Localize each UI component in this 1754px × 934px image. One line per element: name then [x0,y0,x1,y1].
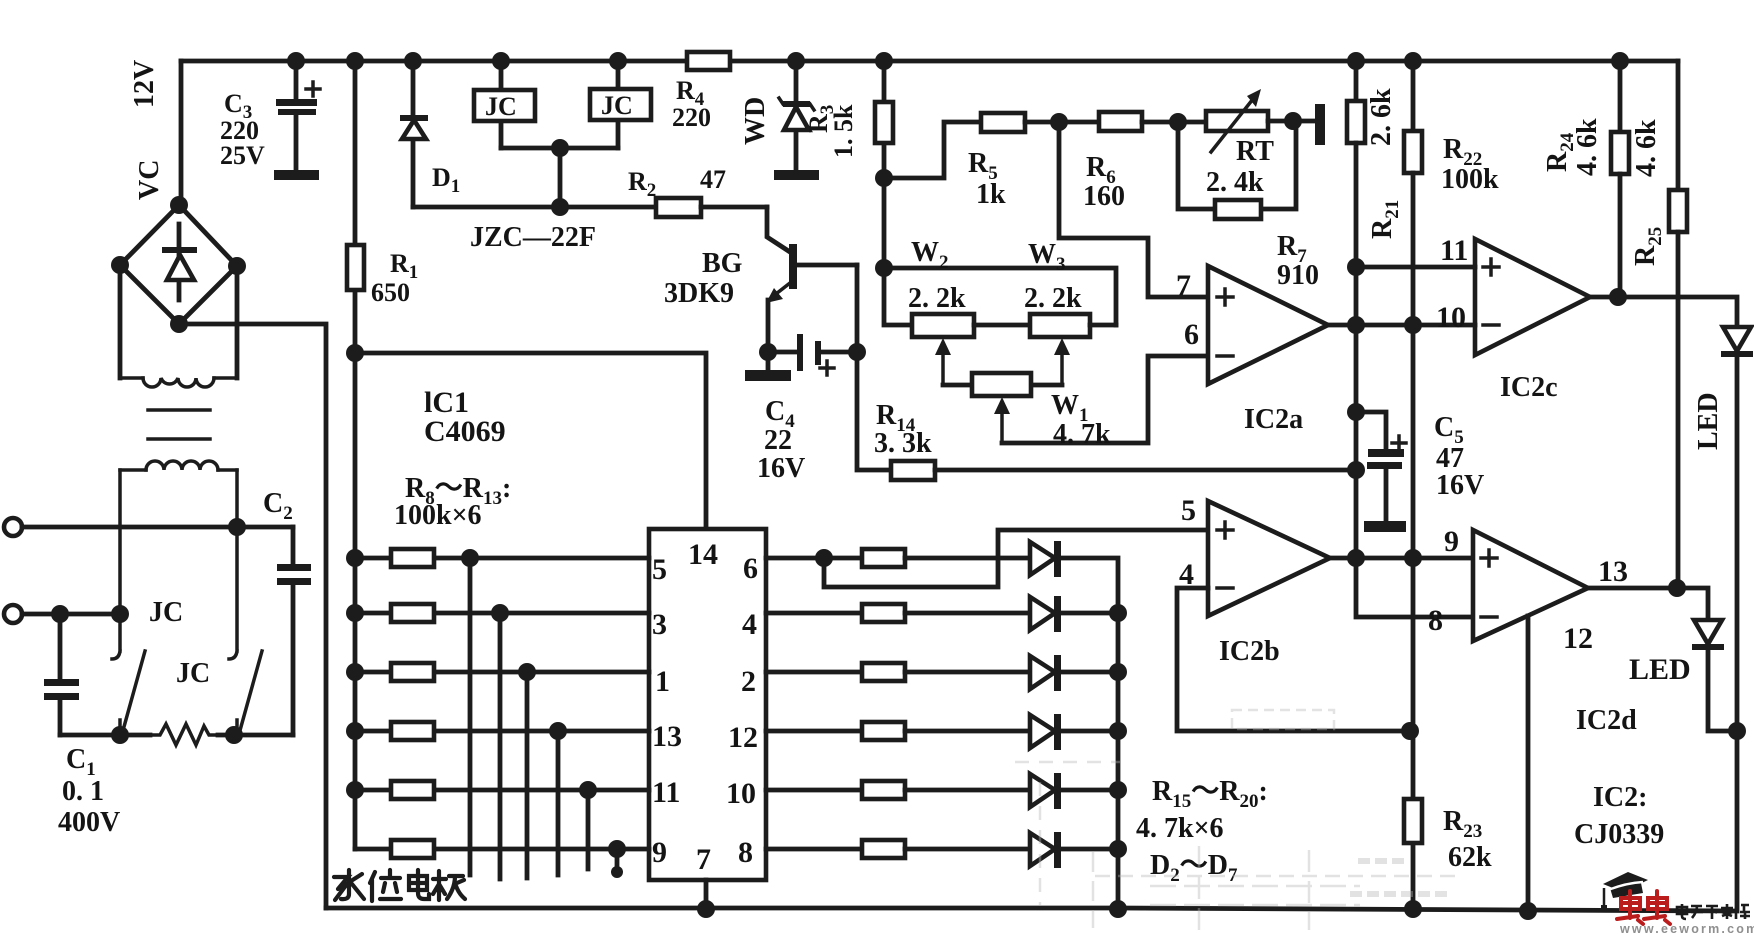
resistor R23 [1404,558,1422,918]
zener WD [779,61,814,172]
pot W2 [912,314,1030,385]
wire W2W3 top loop [875,259,1116,325]
terminal input N [4,605,22,623]
svg-text:2: 2 [741,665,756,698]
label R6 160 [1083,152,1125,212]
wire +12V top rail [181,59,1678,64]
diode D5 [1030,714,1118,750]
capacitor C2 [277,527,311,735]
capacitor C5 [1356,412,1406,523]
label RT 2.4k [1206,136,1274,198]
svg-text:BG: BG [702,248,743,279]
thermistor RT [1206,89,1317,152]
op-amp IC2d [1473,530,1588,641]
svg-text:16V: 16V [1436,470,1484,501]
svg-text:LED: LED [1629,653,1691,686]
svg-text:C4069: C4069 [424,415,506,448]
resistor R2 [656,198,767,217]
svg-text:6: 6 [1184,318,1199,351]
svg-text:7: 7 [696,843,711,876]
scan noise bleed-through [1015,710,1460,930]
svg-text:100k×6: 100k×6 [394,500,482,531]
svg-text:9: 9 [1444,525,1459,558]
label D1 [432,163,460,197]
resistor R6 [1099,112,1206,131]
svg-text:9: 9 [652,836,667,869]
resistor R5 [981,113,1099,132]
diode D6 [1030,773,1118,809]
svg-text:0. 1: 0. 1 [62,776,104,807]
svg-text:14: 14 [688,538,718,571]
ground bar WD [774,170,819,180]
wire JC coils common [501,139,618,207]
label R15-R20 4.7kx6 [1136,776,1268,844]
wire IC2a out to IC2c pin10 [1328,323,1475,328]
resistor R18 [766,722,1030,740]
label W3 2.2k [1024,239,1082,314]
junction dots on top rail [287,52,1629,70]
junction emitter C4 [759,343,777,361]
label water level electrodes (shui wei dian ji) [334,870,465,901]
resistor R15 [862,549,1030,567]
label C3 220 25V [220,89,265,170]
svg-text:IC2b: IC2b [1219,636,1280,667]
op-amp IC2b [1208,501,1330,616]
diode D3 [1030,596,1118,632]
svg-text:1: 1 [655,665,670,698]
svg-text:4. 7k×6: 4. 7k×6 [1136,813,1224,844]
label IC2c pins 11 10 [1436,234,1468,334]
transistor BG [766,207,857,352]
label IC2b pins 5 4 [1179,494,1196,591]
resistor R21 [1347,61,1473,617]
resistor R20 [766,840,1030,858]
wire R3 to R5 [884,122,981,178]
svg-text:IC2c: IC2c [1500,372,1558,403]
heater element zigzag [152,724,216,745]
watermark chongchong red glyphs [1617,891,1670,924]
label WD [740,97,771,145]
label R8-R13 100kx6 [394,473,511,531]
ground bar C3 [274,170,319,180]
wire bottom bus [326,731,1737,911]
svg-text:2. 4k: 2. 4k [1206,167,1264,198]
resistor R9 [346,604,649,622]
svg-text:12: 12 [728,721,758,754]
wire W1 wiper to IC2a pin6 [1002,356,1208,443]
wire VC riser [179,61,184,205]
LED2 [1692,620,1746,740]
label R24 4.6k [1542,118,1603,176]
resistor R3 [875,61,893,268]
wire input L to C2 [22,518,293,536]
svg-text:IC2a: IC2a [1244,404,1303,435]
wire D1 to R2 node [413,198,656,216]
wire IC2b pin4 feedback [1177,588,1419,740]
label C1 0.1 400V [58,744,120,838]
wire IC2c pin11 [1356,265,1475,270]
label C5 47 16V [1434,412,1484,501]
svg-text:62k: 62k [1448,842,1492,873]
svg-text:1k: 1k [976,179,1006,210]
svg-text:2. 6k: 2. 6k [1366,88,1397,146]
capacitor C4 [768,334,857,375]
resistor R4 [687,52,730,70]
svg-text:650: 650 [371,278,410,307]
svg-text:10: 10 [726,777,756,810]
wire IC2c output to LED1 [1590,288,1737,327]
relay contact JC b [229,470,262,735]
label JZC-22F [470,222,596,253]
svg-text:47: 47 [700,165,726,194]
label LED2 [1629,653,1691,686]
relay contact JC a [112,470,145,735]
wire IC2b output [1330,549,1473,567]
junction dot R22 column [1404,316,1422,334]
label JC contact b [176,658,210,689]
ground bar emitter [745,352,791,381]
label JC contact a [149,597,183,628]
wire input N [22,605,129,623]
label R14 3.3k [874,400,932,459]
svg-text:5: 5 [652,553,667,586]
svg-text:5: 5 [1181,494,1196,527]
label 12V [129,60,160,108]
resistor R17 [766,663,1030,681]
capacitor C1 [44,614,79,735]
IC1 chip box [649,529,766,880]
watermark dianzi xiazaizhan glyphs [1677,904,1750,919]
label IC2 CJ0339 [1574,782,1664,850]
svg-text:2. 2k: 2. 2k [1024,283,1082,314]
resistor R8 [346,549,649,567]
label IC2c [1500,372,1558,403]
label pin 6 [1184,318,1199,351]
label C2 [263,488,293,524]
label LED1 [1693,392,1724,450]
svg-text:JZC—22F: JZC—22F [470,222,596,253]
svg-text:JC: JC [485,92,517,121]
diode D4 [1030,655,1118,691]
label pin 7 [1176,269,1191,302]
svg-text:11: 11 [652,776,680,809]
svg-text:910: 910 [1277,260,1319,291]
svg-text:100k: 100k [1441,164,1499,195]
wire BG collector to R14 [848,265,891,470]
transformer secondary coil [120,378,237,387]
svg-text:7: 7 [1176,269,1191,302]
wire VCC to IC1 pin14 [346,344,706,529]
resistor R7 [1178,121,1296,219]
label IC2b [1219,636,1280,667]
ground bar C5 [1364,521,1406,532]
wire pin6 bypass to IC2b pin5 [824,530,1208,587]
transformer primary coil [120,461,237,470]
svg-text:IC2:: IC2: [1593,782,1647,813]
resistor R19 [766,781,1030,799]
svg-text:4. 6k: 4. 6k [1631,119,1662,177]
wire load bottom [60,726,293,744]
pot W1 [972,373,1031,443]
LED1 [1721,327,1753,731]
label D2-D7 [1150,850,1238,886]
wire IC2d output to LED2 [1588,579,1708,620]
svg-text:3DK9: 3DK9 [664,278,734,309]
svg-text:4. 7k: 4. 7k [1053,419,1111,450]
terminal input L [4,518,22,536]
svg-text:JC: JC [149,597,183,628]
diode D1 [400,61,428,207]
label R5 1k [968,148,1006,210]
svg-text:11: 11 [1440,234,1468,267]
IC1 pin numbers [652,538,758,876]
svg-text:12V: 12V [129,60,160,108]
op-amp IC2c [1475,239,1590,355]
resistor R16 [766,604,1030,622]
resistor R22 [1404,61,1422,558]
diode D7 [1030,832,1118,868]
resistor R13 [355,840,649,858]
svg-text:8: 8 [1428,604,1443,637]
resistor R24 [1611,61,1629,297]
wire IC1 pin6 node [766,549,862,567]
label VC [134,160,165,200]
wire sense common column [353,353,358,849]
svg-text:12: 12 [1563,622,1593,655]
watermark graduation cap [1601,872,1648,911]
diode D2 [1030,541,1118,613]
svg-text:JC: JC [176,658,210,689]
resistor R25 [1669,61,1687,588]
svg-text:JC: JC [601,91,633,120]
svg-text:220: 220 [672,103,711,132]
svg-text:4: 4 [742,608,757,641]
svg-text:3. 3k: 3. 3k [874,428,932,459]
resistor R14 [891,461,1354,480]
wire bridge output to bottom bus [179,324,326,908]
label W1 4.7k [1051,390,1111,450]
resistor R10 [346,663,649,681]
water level electrode probes [470,558,623,879]
svg-text:3: 3 [652,608,667,641]
svg-text:2. 2k: 2. 2k [908,283,966,314]
label IC1 C4069 [424,386,506,448]
label R25 4.6k [1630,119,1666,266]
label R23 62k [1443,806,1492,873]
label R7 910 [1277,231,1319,291]
label R4 220 [672,76,711,132]
ground bar RT [1315,104,1325,145]
watermark url text [1619,922,1754,934]
resistor R11 [346,722,649,740]
svg-text:IC2d: IC2d [1576,705,1637,736]
svg-text:www.eeworm.com: www.eeworm.com [1619,922,1754,934]
svg-text:16V: 16V [757,453,805,484]
svg-text:4. 6k: 4. 6k [1572,118,1603,176]
svg-text:VC: VC [134,160,165,200]
label R1 650 [371,249,418,307]
svg-text:RT: RT [1236,136,1274,167]
label BG 3DK9 [664,248,743,309]
label R2 47 [628,165,726,201]
label R3 1.5k [804,104,858,158]
wire R5R6 node to IC2a pin7 [1059,122,1208,297]
wire diode bus [1109,604,1127,918]
svg-text:10: 10 [1436,301,1466,334]
svg-text:22: 22 [764,425,792,456]
label C4 22 16V [757,396,805,484]
wire IC2d pin12 to bus [1519,616,1537,920]
wire bridge AC legs [120,265,237,378]
op-amp IC2a [1208,266,1328,384]
svg-text:1. 5k: 1. 5k [829,104,858,158]
label R21 2.6k [1366,88,1403,239]
pot W3 [1030,314,1116,385]
label W2 2.2k [908,237,966,314]
resistor R12 [346,781,649,799]
svg-text:6: 6 [743,552,758,585]
svg-text:CJ0339: CJ0339 [1574,819,1664,850]
wire IC1 pin7 to bus [697,880,715,918]
svg-text:25V: 25V [220,141,265,170]
label IC2a [1244,404,1303,435]
label IC2d pins 9 8 13 12 [1428,525,1628,655]
svg-text:8: 8 [738,836,753,869]
svg-text:LED: LED [1693,392,1724,450]
label IC2d [1576,705,1637,736]
svg-text:160: 160 [1083,181,1125,212]
resistor R1 [347,61,364,354]
bridge rectifier [111,196,246,333]
relay coil JC box 1 [474,61,535,148]
svg-text:WD: WD [740,97,771,145]
capacitor C3 [276,61,320,171]
svg-text:13: 13 [652,720,682,753]
transformer core [148,410,210,439]
svg-text:D2～D7: D2～D7 [1150,850,1238,886]
relay coil JC box 2 [590,61,651,148]
junction dots R21 column [1347,258,1365,479]
svg-text:400V: 400V [58,807,120,838]
label R22 100k [1441,134,1499,195]
svg-text:13: 13 [1598,555,1628,588]
